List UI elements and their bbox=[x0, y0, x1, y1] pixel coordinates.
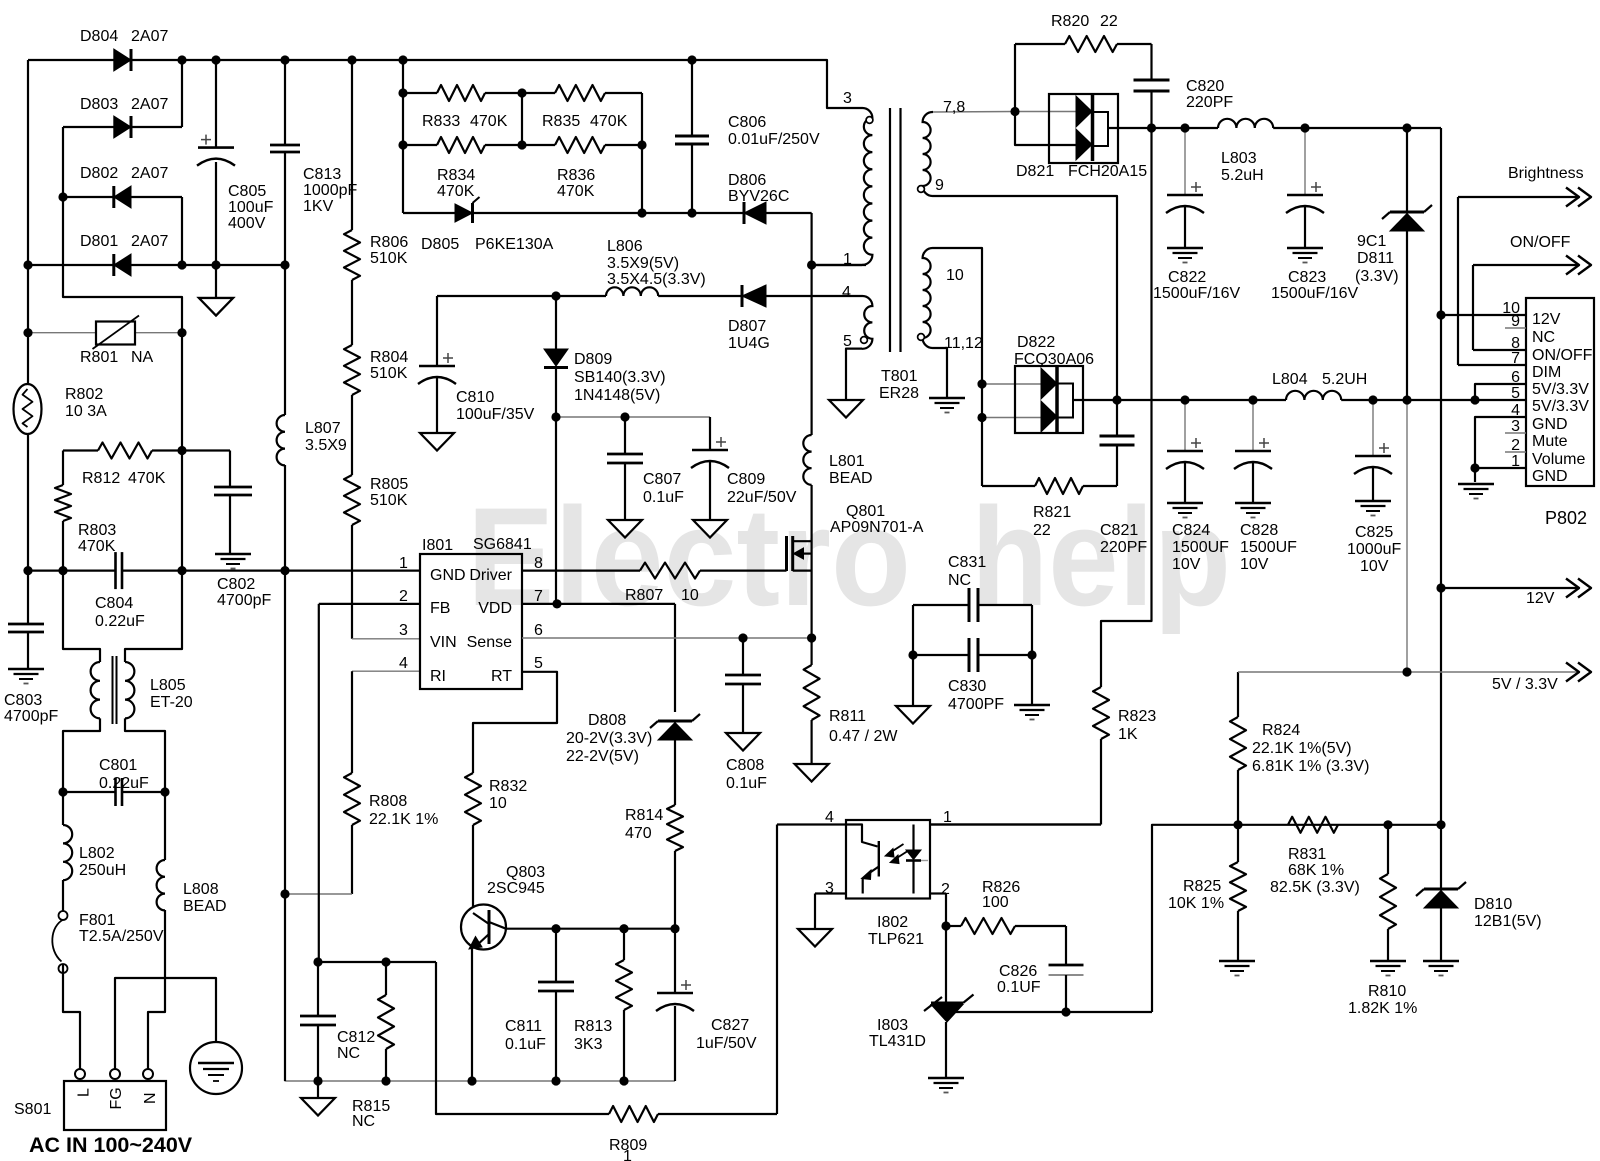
svg-text:7: 7 bbox=[534, 588, 543, 605]
svg-text:5: 5 bbox=[1511, 385, 1520, 402]
svg-text:4: 4 bbox=[825, 809, 834, 826]
svg-text:8: 8 bbox=[534, 555, 543, 572]
svg-text:0.1uF: 0.1uF bbox=[643, 489, 684, 506]
svg-text:22uF/50V: 22uF/50V bbox=[727, 489, 797, 506]
svg-text:C830: C830 bbox=[948, 678, 986, 695]
svg-text:D803: D803 bbox=[80, 96, 118, 113]
svg-text:470K: 470K bbox=[78, 538, 116, 555]
svg-text:5.2UH: 5.2UH bbox=[1322, 371, 1367, 388]
svg-text:C805: C805 bbox=[228, 183, 266, 200]
svg-text:R808: R808 bbox=[369, 793, 407, 810]
svg-text:TL431D: TL431D bbox=[869, 1033, 926, 1050]
svg-text:510K: 510K bbox=[370, 492, 408, 509]
svg-text:SB140(3.3V): SB140(3.3V) bbox=[574, 369, 666, 386]
svg-text:22-2V(5V): 22-2V(5V) bbox=[566, 748, 639, 765]
svg-text:C822: C822 bbox=[1168, 269, 1206, 286]
svg-text:S801: S801 bbox=[14, 1101, 51, 1118]
svg-text:3K3: 3K3 bbox=[574, 1036, 603, 1053]
svg-text:ON/OFF: ON/OFF bbox=[1532, 347, 1593, 364]
svg-text:0.1UF: 0.1UF bbox=[997, 979, 1041, 996]
svg-text:L804: L804 bbox=[1272, 371, 1308, 388]
svg-text:470K: 470K bbox=[470, 113, 508, 130]
svg-text:11,12: 11,12 bbox=[944, 335, 983, 352]
svg-text:Q803: Q803 bbox=[506, 864, 545, 881]
svg-text:5V/3.3V: 5V/3.3V bbox=[1532, 381, 1589, 398]
svg-text:10: 10 bbox=[489, 795, 507, 812]
svg-text:6: 6 bbox=[1511, 369, 1520, 386]
svg-text:1500uF/16V: 1500uF/16V bbox=[1153, 285, 1241, 302]
svg-text:R814: R814 bbox=[625, 807, 663, 824]
svg-text:1: 1 bbox=[843, 251, 852, 268]
svg-text:2: 2 bbox=[399, 588, 408, 605]
svg-text:R802: R802 bbox=[65, 386, 103, 403]
svg-text:ON/OFF: ON/OFF bbox=[1510, 234, 1571, 251]
svg-text:1K: 1K bbox=[1118, 726, 1138, 743]
svg-text:FG: FG bbox=[108, 1087, 125, 1109]
svg-text:3.5X4.5(3.3V): 3.5X4.5(3.3V) bbox=[607, 271, 706, 288]
svg-text:R805: R805 bbox=[370, 476, 408, 493]
svg-text:R811: R811 bbox=[829, 708, 866, 725]
svg-text:D802: D802 bbox=[80, 165, 118, 182]
svg-text:1500uF/16V: 1500uF/16V bbox=[1271, 285, 1359, 302]
svg-text:VIN: VIN bbox=[430, 634, 457, 651]
svg-text:3: 3 bbox=[399, 622, 408, 639]
svg-text:C823: C823 bbox=[1288, 269, 1326, 286]
svg-text:BEAD: BEAD bbox=[829, 470, 873, 487]
svg-text:C824: C824 bbox=[1172, 522, 1210, 539]
svg-text:4700pF: 4700pF bbox=[217, 592, 271, 609]
svg-text:1500UF: 1500UF bbox=[1172, 539, 1229, 556]
svg-text:R836: R836 bbox=[557, 167, 595, 184]
svg-text:NA: NA bbox=[131, 349, 154, 366]
svg-text:C826: C826 bbox=[999, 963, 1037, 980]
svg-text:Mute: Mute bbox=[1532, 433, 1568, 450]
svg-text:Volume: Volume bbox=[1532, 451, 1585, 468]
svg-text:5.2uH: 5.2uH bbox=[1221, 167, 1264, 184]
svg-text:9: 9 bbox=[1511, 313, 1520, 330]
svg-text:R832: R832 bbox=[489, 778, 527, 795]
svg-text:DIM: DIM bbox=[1532, 364, 1561, 381]
svg-text:0.22uF: 0.22uF bbox=[99, 775, 149, 792]
svg-text:1: 1 bbox=[623, 1148, 632, 1161]
svg-text:470K: 470K bbox=[557, 183, 595, 200]
svg-text:D822: D822 bbox=[1017, 334, 1055, 351]
svg-text:2A07: 2A07 bbox=[131, 165, 168, 182]
svg-text:250uH: 250uH bbox=[79, 862, 126, 879]
svg-text:C827: C827 bbox=[711, 1017, 749, 1034]
svg-text:P802: P802 bbox=[1545, 508, 1587, 528]
svg-text:(3.3V): (3.3V) bbox=[1355, 268, 1399, 285]
svg-text:R804: R804 bbox=[370, 349, 408, 366]
svg-text:RT: RT bbox=[491, 668, 512, 685]
svg-text:C811: C811 bbox=[505, 1018, 542, 1035]
svg-text:1uF/50V: 1uF/50V bbox=[696, 1035, 757, 1052]
svg-text:L801: L801 bbox=[829, 453, 865, 470]
svg-text:L807: L807 bbox=[305, 420, 341, 437]
svg-text:D804: D804 bbox=[80, 28, 118, 45]
svg-text:1: 1 bbox=[943, 809, 952, 826]
svg-text:F801: F801 bbox=[79, 912, 116, 929]
svg-text:D809: D809 bbox=[574, 351, 612, 368]
svg-text:2A07: 2A07 bbox=[131, 233, 168, 250]
svg-text:470K: 470K bbox=[128, 470, 166, 487]
svg-text:R820: R820 bbox=[1051, 13, 1089, 30]
svg-text:10: 10 bbox=[681, 587, 699, 604]
svg-text:R834: R834 bbox=[437, 167, 475, 184]
svg-text:3: 3 bbox=[825, 880, 834, 897]
svg-text:220PF: 220PF bbox=[1100, 539, 1147, 556]
svg-text:N: N bbox=[142, 1092, 159, 1104]
svg-text:5: 5 bbox=[534, 655, 543, 672]
svg-text:100: 100 bbox=[982, 894, 1009, 911]
svg-text:7: 7 bbox=[1511, 350, 1520, 367]
svg-text:1: 1 bbox=[1511, 453, 1520, 470]
svg-text:470K: 470K bbox=[590, 113, 628, 130]
svg-text:470K: 470K bbox=[437, 183, 475, 200]
svg-text:R831: R831 bbox=[1288, 846, 1326, 863]
svg-text:20-2V(3.3V): 20-2V(3.3V) bbox=[566, 730, 652, 747]
svg-text:2A07: 2A07 bbox=[131, 96, 168, 113]
svg-text:ET-20: ET-20 bbox=[150, 694, 193, 711]
svg-text:R806: R806 bbox=[370, 234, 408, 251]
svg-text:470: 470 bbox=[625, 825, 652, 842]
svg-text:2: 2 bbox=[941, 881, 950, 898]
svg-text:C808: C808 bbox=[726, 757, 764, 774]
svg-text:GND: GND bbox=[1532, 416, 1568, 433]
svg-text:P6KE130A: P6KE130A bbox=[475, 236, 554, 253]
svg-text:5: 5 bbox=[843, 333, 852, 350]
svg-text:R825: R825 bbox=[1183, 878, 1221, 895]
svg-text:22: 22 bbox=[1100, 13, 1118, 30]
svg-text:7,8: 7,8 bbox=[943, 99, 965, 116]
svg-text:0.1uF: 0.1uF bbox=[726, 775, 767, 792]
svg-text:12V: 12V bbox=[1526, 590, 1555, 607]
svg-text:3: 3 bbox=[843, 90, 852, 107]
svg-text:L808: L808 bbox=[183, 881, 219, 898]
svg-text:3.5X9(5V): 3.5X9(5V) bbox=[607, 255, 679, 272]
svg-text:I801: I801 bbox=[422, 537, 453, 554]
svg-text:GND: GND bbox=[430, 567, 466, 584]
svg-text:Driver: Driver bbox=[469, 567, 512, 584]
svg-text:D805: D805 bbox=[421, 236, 459, 253]
svg-text:1500UF: 1500UF bbox=[1240, 539, 1297, 556]
svg-text:FCQ30A06: FCQ30A06 bbox=[1014, 351, 1094, 368]
svg-text:AP09N701-A: AP09N701-A bbox=[830, 519, 924, 536]
svg-text:0.1uF: 0.1uF bbox=[505, 1036, 546, 1053]
svg-text:AC IN 100~240V: AC IN 100~240V bbox=[29, 1133, 193, 1157]
svg-text:RI: RI bbox=[430, 668, 446, 685]
svg-text:Brightness: Brightness bbox=[1508, 165, 1584, 182]
svg-text:ER28: ER28 bbox=[879, 385, 919, 402]
svg-text:I803: I803 bbox=[877, 1017, 908, 1034]
svg-text:NC: NC bbox=[1532, 329, 1555, 346]
svg-text:1000uF: 1000uF bbox=[1347, 541, 1401, 558]
svg-text:22.1K 1%: 22.1K 1% bbox=[369, 811, 438, 828]
svg-text:10K 1%: 10K 1% bbox=[1168, 895, 1224, 912]
svg-text:100uF: 100uF bbox=[228, 199, 274, 216]
svg-text:BEAD: BEAD bbox=[183, 898, 227, 915]
svg-text:100uF/35V: 100uF/35V bbox=[456, 406, 535, 423]
svg-text:0.47 / 2W: 0.47 / 2W bbox=[829, 728, 898, 745]
svg-text:BYV26C: BYV26C bbox=[728, 188, 789, 205]
svg-text:C810: C810 bbox=[456, 389, 494, 406]
svg-text:L806: L806 bbox=[607, 238, 643, 255]
svg-text:R835: R835 bbox=[542, 113, 580, 130]
svg-text:L805: L805 bbox=[150, 677, 186, 694]
svg-text:10V: 10V bbox=[1240, 556, 1269, 573]
svg-text:10V: 10V bbox=[1172, 556, 1201, 573]
svg-text:4700PF: 4700PF bbox=[948, 696, 1004, 713]
svg-text:D806: D806 bbox=[728, 172, 766, 189]
svg-text:D808: D808 bbox=[588, 712, 626, 729]
svg-text:2A07: 2A07 bbox=[131, 28, 168, 45]
svg-text:R812: R812 bbox=[82, 470, 120, 487]
svg-text:C802: C802 bbox=[217, 576, 255, 593]
svg-text:510K: 510K bbox=[370, 365, 408, 382]
svg-text:VDD: VDD bbox=[478, 600, 512, 617]
svg-text:10: 10 bbox=[946, 267, 964, 284]
svg-text:22.1K 1%(5V): 22.1K 1%(5V) bbox=[1252, 740, 1352, 757]
svg-text:NC: NC bbox=[337, 1045, 360, 1062]
svg-text:Sense: Sense bbox=[467, 634, 512, 651]
svg-text:R801: R801 bbox=[80, 349, 118, 366]
svg-text:SG6841: SG6841 bbox=[473, 536, 532, 553]
svg-text:T2.5A/250V: T2.5A/250V bbox=[79, 928, 164, 945]
svg-text:D807: D807 bbox=[728, 318, 766, 335]
svg-text:C806: C806 bbox=[728, 114, 766, 131]
svg-text:R807: R807 bbox=[625, 587, 663, 604]
svg-text:1KV: 1KV bbox=[303, 198, 334, 215]
svg-text:4: 4 bbox=[1511, 402, 1520, 419]
svg-text:FCH20A15: FCH20A15 bbox=[1068, 163, 1147, 180]
svg-text:C813: C813 bbox=[303, 166, 341, 183]
svg-text:R821: R821 bbox=[1033, 504, 1071, 521]
svg-text:C820: C820 bbox=[1186, 78, 1224, 95]
svg-text:3.5X9: 3.5X9 bbox=[305, 437, 347, 454]
svg-text:D801: D801 bbox=[80, 233, 118, 250]
svg-text:C812: C812 bbox=[337, 1029, 375, 1046]
svg-text:1.82K 1%: 1.82K 1% bbox=[1348, 1000, 1417, 1017]
svg-text:R803: R803 bbox=[78, 522, 116, 539]
svg-text:10V: 10V bbox=[1360, 558, 1389, 575]
svg-text:R813: R813 bbox=[574, 1018, 612, 1035]
svg-text:C801: C801 bbox=[99, 757, 137, 774]
svg-text:TLP621: TLP621 bbox=[868, 931, 924, 948]
svg-text:1N4148(5V): 1N4148(5V) bbox=[574, 387, 660, 404]
svg-text:6: 6 bbox=[534, 622, 543, 639]
svg-text:D811: D811 bbox=[1357, 250, 1394, 267]
svg-text:3: 3 bbox=[1511, 418, 1520, 435]
svg-text:1: 1 bbox=[399, 555, 408, 572]
svg-text:510K: 510K bbox=[370, 250, 408, 267]
svg-text:82.5K (3.3V): 82.5K (3.3V) bbox=[1270, 879, 1360, 896]
svg-text:22: 22 bbox=[1033, 522, 1051, 539]
svg-text:D810: D810 bbox=[1474, 896, 1512, 913]
svg-text:R823: R823 bbox=[1118, 708, 1156, 725]
svg-text:C821: C821 bbox=[1100, 522, 1138, 539]
svg-text:L803: L803 bbox=[1221, 150, 1257, 167]
svg-text:4: 4 bbox=[399, 655, 408, 672]
svg-text:4: 4 bbox=[842, 284, 851, 301]
svg-text:10 3A: 10 3A bbox=[65, 403, 107, 420]
svg-text:68K 1%: 68K 1% bbox=[1288, 862, 1344, 879]
svg-text:R833: R833 bbox=[422, 113, 460, 130]
svg-text:C804: C804 bbox=[95, 595, 133, 612]
svg-text:C809: C809 bbox=[727, 471, 765, 488]
svg-text:R824: R824 bbox=[1262, 722, 1300, 739]
svg-text:NC: NC bbox=[352, 1113, 375, 1130]
svg-text:2: 2 bbox=[1511, 437, 1520, 454]
svg-text:L: L bbox=[75, 1088, 92, 1097]
svg-text:C828: C828 bbox=[1240, 522, 1278, 539]
svg-text:5V / 3.3V: 5V / 3.3V bbox=[1492, 676, 1558, 693]
svg-text:T801: T801 bbox=[881, 368, 918, 385]
svg-text:Q801: Q801 bbox=[846, 503, 885, 520]
svg-text:220PF: 220PF bbox=[1186, 94, 1233, 111]
svg-text:9: 9 bbox=[935, 177, 944, 194]
svg-text:12V: 12V bbox=[1532, 311, 1561, 328]
svg-text:0.22uF: 0.22uF bbox=[95, 613, 145, 630]
svg-text:C825: C825 bbox=[1355, 524, 1393, 541]
svg-text:9C1: 9C1 bbox=[1357, 233, 1386, 250]
svg-text:1U4G: 1U4G bbox=[728, 335, 770, 352]
svg-text:FB: FB bbox=[430, 600, 450, 617]
svg-text:NC: NC bbox=[948, 572, 971, 589]
svg-text:C831: C831 bbox=[948, 554, 986, 571]
svg-text:5V/3.3V: 5V/3.3V bbox=[1532, 398, 1589, 415]
svg-text:2SC945: 2SC945 bbox=[487, 880, 545, 897]
svg-text:D821: D821 bbox=[1016, 163, 1054, 180]
svg-text:I802: I802 bbox=[877, 914, 908, 931]
svg-text:4700pF: 4700pF bbox=[4, 708, 58, 725]
svg-text:0.01uF/250V: 0.01uF/250V bbox=[728, 131, 820, 148]
svg-text:6.81K 1% (3.3V): 6.81K 1% (3.3V) bbox=[1252, 758, 1369, 775]
svg-text:C803: C803 bbox=[4, 692, 42, 709]
svg-text:12B1(5V): 12B1(5V) bbox=[1474, 913, 1542, 930]
svg-text:R810: R810 bbox=[1368, 983, 1406, 1000]
svg-text:GND: GND bbox=[1532, 468, 1568, 485]
svg-text:1000pF: 1000pF bbox=[303, 182, 357, 199]
svg-text:400V: 400V bbox=[228, 215, 266, 232]
svg-text:L802: L802 bbox=[79, 845, 115, 862]
svg-text:C807: C807 bbox=[643, 471, 681, 488]
